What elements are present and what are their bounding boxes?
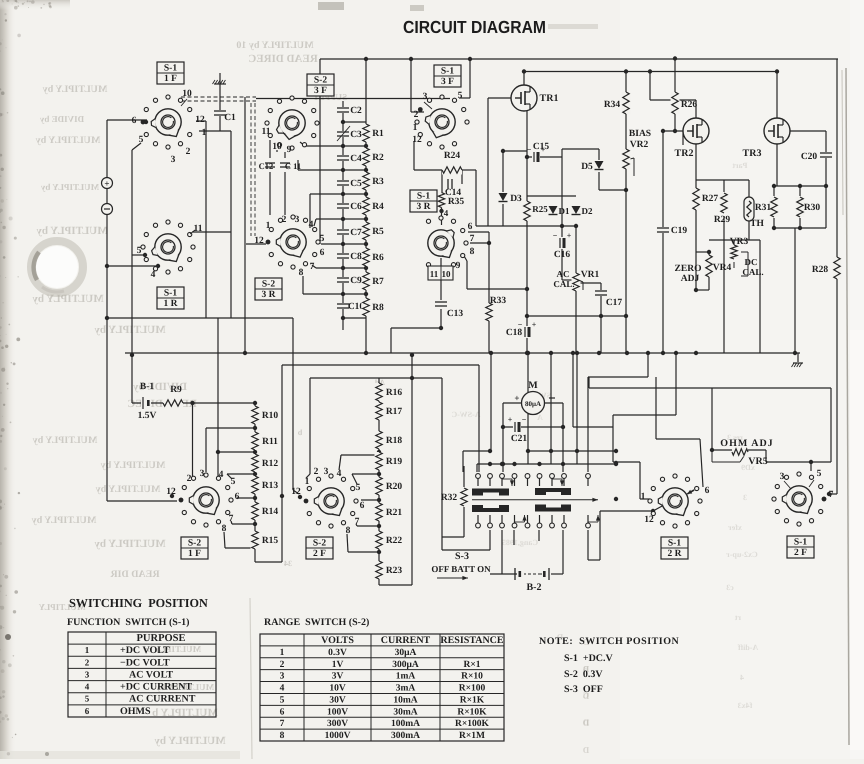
label box S-2 2F [306,537,333,559]
resistor R23 [375,561,384,579]
svg-text:R8: R8 [372,303,384,313]
svg-text:2 R: 2 R [668,549,682,559]
svg-text:R22: R22 [386,536,403,546]
capacitor C10 [336,303,350,309]
svg-text:R31: R31 [755,203,772,213]
wire: S-3 box [441,378,443,550]
capacitor C1 [213,110,227,116]
wire: left riser x132 [132,143,141,150]
rotary switch S-2 1F [179,473,233,527]
svg-text:10: 10 [272,142,282,152]
svg-text:30V: 30V [329,695,346,705]
svg-text:Cang,1985: Cang,1985 [502,538,538,547]
shield symbol [214,83,226,85]
svg-text:S-2 0.3V: S-2 0.3V [564,669,603,680]
wire: C13 branch [440,258,442,300]
svg-text:C12: C12 [259,161,274,171]
svg-text:10V: 10V [329,684,346,694]
svg-text:9: 9 [456,261,461,271]
wire: D3 column [502,151,504,226]
svg-text:30mA: 30mA [393,707,417,717]
svg-text:C5: C5 [350,179,362,189]
svg-text:READ DIREC: READ DIREC [127,398,196,410]
svg-text:R×1: R×1 [463,660,480,670]
wire: R16-R23 chain [378,385,380,585]
svg-text:5: 5 [139,135,144,145]
svg-text:C21: C21 [511,434,528,444]
svg-text:C3: C3 [350,130,362,140]
svg-text:8: 8 [222,524,227,534]
capacitor C11 [279,162,291,168]
svg-text:8: 8 [299,268,304,278]
svg-text:C1: C1 [224,113,236,123]
rotary switch S-1 2F [772,472,826,526]
svg-text:ADJ: ADJ [681,274,700,284]
svg-text:B-2: B-2 [527,582,542,593]
svg-text:11: 11 [430,269,439,279]
wire: C17 [576,282,601,284]
wire: S-1 1F right contacts [199,130,231,132]
svg-text:12: 12 [254,236,264,246]
svg-text:R25: R25 [532,204,548,214]
svg-text:−: − [527,145,532,154]
svg-text:4: 4 [337,469,342,479]
svg-text:4: 4 [151,270,156,280]
svg-text:8: 8 [280,731,285,741]
svg-text:1: 1 [266,221,271,231]
svg-text:3 F: 3 F [441,77,454,87]
svg-text:C7: C7 [350,228,362,238]
svg-text:R24: R24 [444,151,461,161]
svg-text:3: 3 [85,669,90,679]
wire: VR1 column [575,226,577,316]
resistor R7 [362,272,371,290]
svg-text:Cx2-up-r: Cx2-up-r [726,550,758,559]
svg-text:S-1 +DC.V: S-1 +DC.V [564,653,614,664]
wire: upper rail TR1-TR3 [524,71,777,73]
wire: S-1 2R wiper12 [600,510,653,512]
wire: B-2 [501,530,503,574]
svg-text:2: 2 [282,215,287,225]
svg-text:CAL.: CAL. [742,267,763,277]
rotary switch S-1 3F [415,95,469,149]
svg-text:5: 5 [85,694,90,704]
svg-text:TR1: TR1 [540,93,559,104]
svg-text:R12: R12 [262,459,279,469]
S-3 hook arrows [502,478,512,480]
svg-text:D3: D3 [510,194,522,204]
svg-text:3: 3 [324,467,329,477]
rotary switch S-2 2F [304,474,359,528]
wire: R34/VR2 column [625,72,627,354]
svg-text:2: 2 [280,660,285,670]
svg-text:7: 7 [280,719,285,729]
svg-text:3V: 3V [332,672,344,682]
svg-text:+DC VOLT: +DC VOLT [120,645,170,656]
resistor R15 [251,531,260,549]
resistor R16 [375,383,384,401]
terminal + [102,178,113,189]
resistor R5 [362,222,371,240]
wire: TR1 drain [523,72,525,86]
svg-text:9: 9 [287,145,292,155]
meter M [522,392,545,415]
svg-text:c3: c3 [726,583,734,592]
svg-text:MULTIPLY by 10: MULTIPLY by 10 [236,40,313,51]
svg-text:VOLTS: VOLTS [321,635,354,646]
svg-text:R13: R13 [262,481,279,491]
svg-text:1 R: 1 R [164,299,178,309]
svg-text:OHM ADJ: OHM ADJ [720,438,773,449]
rail y228 [774,227,826,229]
resistor R34 [622,92,631,114]
svg-text:SWITCHING POSITION: SWITCHING POSITION [69,596,208,610]
resistor R29 [720,193,729,213]
label box 11 10 [428,266,453,280]
rotary switch S-1 1F [141,95,192,149]
svg-text:R17: R17 [386,407,403,417]
svg-text:AC VOLT: AC VOLT [129,669,173,680]
wire: TR2 source col [695,144,697,290]
wire: R10-R15 chain [254,403,256,562]
svg-text:+: + [514,393,519,403]
svg-text:R9: R9 [170,385,182,395]
svg-text:M: M [528,380,538,391]
svg-text:C9: C9 [350,276,362,286]
svg-text:VR1: VR1 [581,270,600,280]
svg-text:MULTIPLY by: MULTIPLY by [96,484,161,495]
svg-text:R15: R15 [262,536,279,546]
svg-text:MULTIPLY by: MULTIPLY by [40,182,99,192]
svg-text:S-2: S-2 [313,539,326,549]
svg-text:+DC CURRENT: +DC CURRENT [120,682,192,693]
junction dots [364,57,368,61]
wire: extra bus risers [572,353,574,427]
svg-text:MULTIPLY by: MULTIPLY by [43,84,108,95]
resistor R17 [375,402,384,420]
svg-text:100V: 100V [327,707,348,717]
wire: meter leads [503,402,522,404]
wire: main horizontal bus [125,352,800,354]
svg-text:R26: R26 [681,100,698,110]
diode D5 [594,160,604,172]
wire: left tall vertical x245 [244,97,246,353]
capacitor C7 [336,229,350,235]
svg-text:80μA: 80μA [525,400,541,408]
rail y180 [696,179,749,181]
switch S-3 contacts bottom row [476,523,481,528]
svg-text:5: 5 [320,234,325,244]
svg-text:300mA: 300mA [391,731,420,741]
svg-text:MULTIPLY by: MULTIPLY by [32,293,104,305]
svg-text:3: 3 [743,493,747,502]
svg-text:MULTIPLY by: MULTIPLY by [101,460,166,471]
resistor R18 [375,431,384,449]
capacitor C9 [336,277,350,283]
svg-text:S-2: S-2 [188,539,201,549]
svg-text:5: 5 [137,246,142,256]
svg-text:MULTIPLY by: MULTIPLY by [94,324,166,336]
capacitor C5 [336,180,350,186]
svg-text:OHMS: OHMS [120,706,151,717]
svg-text:R×1K: R×1K [460,695,485,705]
svg-text:4: 4 [309,220,314,230]
svg-text:MULTIPLY by: MULTIPLY by [33,435,98,446]
wire: TR3 drain [776,72,778,119]
svg-text:R×10K: R×10K [457,707,487,717]
resistor R21 [375,503,384,521]
ground [797,353,799,362]
resistor R26 [671,92,680,114]
svg-text:R23: R23 [386,566,403,576]
svg-text:R35: R35 [448,197,465,207]
svg-text:VR3: VR3 [730,237,749,247]
wire: S-2 3F box drop [319,59,321,244]
wire: riser x206 [205,121,207,318]
resistor R22 [375,531,384,549]
capacitor C8 [336,253,350,259]
svg-text:C 11: C 11 [285,161,301,171]
svg-text:12: 12 [195,115,205,125]
svg-text:6: 6 [235,492,240,502]
svg-text:5: 5 [356,483,361,493]
resistor R9 [163,399,183,408]
wire: cap ladder spine [342,101,344,330]
svg-text:1 F: 1 F [188,549,201,559]
wire: S-2 3F contact drops [269,140,271,158]
wire: TR2 drain [695,100,697,118]
svg-text:1: 1 [413,123,418,133]
label box S-2 3R [255,278,282,300]
resistor R30 [796,197,805,217]
svg-text:MULTIPLY by: MULTIPLY by [94,538,166,550]
svg-text:C17: C17 [606,298,623,308]
svg-text:READ DIR: READ DIR [110,569,160,580]
svg-text:6: 6 [468,222,473,232]
svg-text:R27: R27 [702,194,719,204]
svg-text:1: 1 [305,477,310,487]
svg-text:R16: R16 [386,388,403,398]
resistor R13 [251,476,260,494]
svg-text:5: 5 [458,91,463,101]
svg-text:FUNCTION SWITCH (S-1): FUNCTION SWITCH (S-1) [67,617,190,628]
capacitor C17 [594,290,608,296]
svg-text:12: 12 [644,515,654,525]
function switch table [68,632,216,717]
svg-text:R×1M: R×1M [459,731,485,741]
wire: TR2 gate / C19 [663,130,683,132]
svg-text:1000V: 1000V [325,731,351,741]
resistor R28 [833,257,842,279]
svg-text:−DC VOLT: −DC VOLT [120,657,170,668]
resistor R3 [362,172,371,190]
wire: top bus [320,58,838,60]
label box S-1 3R [410,190,437,212]
svg-text:300V: 300V [327,719,348,729]
svg-text:3: 3 [171,155,176,165]
rails D1 D2 [527,195,576,197]
svg-text:MULTIPLY by: MULTIPLY by [36,225,108,237]
wire: S-1 3F left [410,59,412,112]
svg-text:3: 3 [295,215,300,225]
label box S-1 3F [434,65,461,87]
svg-text:R×10: R×10 [461,672,483,682]
transistor TR2 [683,118,709,144]
svg-text:10: 10 [182,89,192,99]
svg-text:R1: R1 [372,129,384,139]
wire: rail y378 [310,377,442,379]
svg-text:MULTIPLY by: MULTIPLY by [32,515,97,526]
label box S-1 2R [661,537,688,559]
svg-text:2: 2 [186,147,191,157]
svg-text:8: 8 [470,247,475,257]
range switch table [260,634,504,741]
wire: TR1 gate [488,97,511,99]
resistor R6 [362,248,371,266]
trimmer mark C3 [337,126,350,141]
svg-text:1mA: 1mA [396,672,416,682]
switch S-3 actuator line [472,499,598,501]
terminal - [102,204,113,215]
svg-text:−: − [522,415,527,424]
svg-text:3: 3 [423,92,428,102]
svg-text:S-1: S-1 [794,538,807,548]
wire: TR1 source column [526,111,528,353]
wire: staircase 3 to S-1 2R [675,353,677,415]
svg-text:C2: C2 [350,106,362,116]
svg-text:C4: C4 [350,154,362,164]
wire: S-1 3R contact stubs [468,231,489,233]
svg-text:VR2: VR2 [630,140,649,150]
svg-text:12: 12 [291,487,301,497]
wire: VR4 col [708,252,710,290]
wire: taps S-2 1F [218,451,255,453]
svg-text:A-SW-C: A-SW-C [451,410,480,419]
svg-text:DIVIDE by: DIVIDE by [39,114,84,124]
svg-text:R10: R10 [262,411,279,421]
svg-text:R4: R4 [372,202,384,212]
svg-text:3: 3 [200,469,205,479]
svg-text:MULTIPLY by: MULTIPLY by [36,135,101,146]
svg-text:C19: C19 [671,226,688,236]
svg-text:100mA: 100mA [391,719,420,729]
resistor R19 [375,452,384,470]
svg-text:C16: C16 [554,250,571,260]
rotary switch S-1 3R [426,216,468,270]
svg-text:R21: R21 [386,508,403,518]
potentiometer VR4 [705,255,714,277]
transistor TR1 [511,85,537,111]
svg-text:Part: Part [732,161,747,170]
svg-text:OFF BATT ON: OFF BATT ON [431,564,491,574]
wire: OHM ADJ feed [711,388,713,450]
svg-text:C6: C6 [350,202,362,212]
wire: right edge R28 column [836,59,838,494]
svg-text:R14: R14 [262,507,279,517]
resistor R14 [251,502,260,520]
svg-text:300μA: 300μA [392,660,419,670]
wire: R24 cluster [413,141,415,170]
svg-text:R29: R29 [714,215,731,225]
wire: TR3 source [776,144,778,186]
svg-text:7: 7 [310,262,315,272]
svg-text:−: − [553,231,558,240]
wire: C16 column [561,157,563,280]
svg-text:b: b [297,428,302,437]
svg-text:S-1: S-1 [164,289,177,299]
svg-text:NOTE: SWITCH POSITION: NOTE: SWITCH POSITION [539,636,679,647]
svg-text:3 F: 3 F [314,86,327,96]
resistor R2 [362,148,371,166]
svg-text:11: 11 [262,127,271,137]
svg-text:D: D [582,745,589,755]
svg-text:TH: TH [750,219,764,229]
wire: staircase 2 to VR5/contact5 [588,377,590,388]
svg-text:TR3: TR3 [743,148,762,159]
wire: y464 contact feed [477,463,616,465]
svg-text:R30: R30 [804,203,821,213]
wire: C21 row [503,426,563,428]
wire: S-1 2R contact6 feed [655,377,657,439]
svg-text:3: 3 [780,472,785,482]
svg-text:2: 2 [85,657,90,667]
label box S-2 1F [181,537,208,559]
svg-text:S-2: S-2 [262,280,275,290]
rotary switch S-1 2R [648,474,702,528]
svg-text:12: 12 [412,135,422,145]
rotary switch S-2 3F [265,96,319,150]
wire: y451 segments [463,450,491,452]
svg-text:3mA: 3mA [396,684,416,694]
svg-text:6: 6 [320,248,325,258]
wire: D5 [598,149,600,190]
resistor R20 [375,477,384,495]
wire: second bus to S-3 [282,364,479,366]
svg-text:D: D [582,718,589,728]
switch S-3 contacts top row [476,474,481,479]
svg-text:5: 5 [280,695,285,705]
svg-text:DC: DC [745,257,758,267]
rotary switch S-1 1R [141,220,195,274]
svg-text:CAL.: CAL. [553,279,574,289]
wire: drops to bus from VR area [723,240,725,353]
svg-text:S-1: S-1 [441,67,454,77]
label box S-1 2F [787,536,814,558]
svg-text:+: + [104,179,109,189]
svg-text:2: 2 [187,474,192,484]
svg-text:R2: R2 [372,153,384,163]
svg-text:5: 5 [231,477,236,487]
svg-text:R6: R6 [372,253,384,263]
svg-text:1: 1 [85,645,90,655]
svg-text:6: 6 [705,486,710,496]
svg-text:+: + [532,320,537,329]
capacitor C19 [656,227,670,233]
resistor R31 [770,197,779,217]
svg-text:RESISTANCE: RESISTANCE [440,635,503,646]
potentiometer VR1 [572,273,581,291]
svg-text:R32: R32 [441,493,458,503]
svg-text:R28: R28 [812,265,829,275]
svg-text:7: 7 [355,517,360,527]
capacitor C13 [434,301,448,307]
rail y240 [709,239,760,241]
svg-text:S-1: S-1 [668,539,681,549]
svg-text:rt: rt [735,613,742,622]
diode D2 [571,205,581,217]
svg-text:R19: R19 [386,457,403,467]
capacitor C21 (electrolytic) [513,421,521,433]
